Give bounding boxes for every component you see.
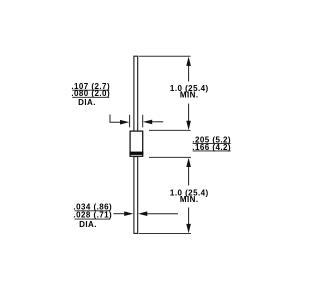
leader line left of lead-diameter arrow <box>113 213 124 215</box>
dimension line: upper lead length 1.0 (25.4) MIN <box>188 62 190 124</box>
svg-text:MIN.: MIN. <box>180 90 199 99</box>
leader (bent) from body-diameter label <box>110 115 121 123</box>
dimension line: lower lead length 1.0 (25.4) MIN <box>188 164 190 228</box>
arrowhead up (upper dim, top) <box>186 57 191 66</box>
cathode band <box>130 152 144 155</box>
wire: bottom lead of diode <box>134 157 138 234</box>
tail of right body-diameter arrow <box>152 121 163 123</box>
extension line: bottom of lead <box>139 233 191 235</box>
svg-text:.028 (.71): .028 (.71) <box>73 211 112 220</box>
arrowhead left at body right edge <box>143 120 152 125</box>
arrowhead down (upper dim, bottom) <box>186 121 191 130</box>
witness line: body left edge <box>129 115 131 128</box>
diode body (DO-41 package outline) <box>130 131 143 156</box>
arrowhead up (lower dim, top) <box>186 158 191 167</box>
arrowhead right at body left edge <box>120 120 129 125</box>
svg-text:MIN.: MIN. <box>180 195 199 204</box>
svg-text:.080 (2.0): .080 (2.0) <box>71 89 110 98</box>
wire: top lead of diode <box>134 56 138 132</box>
svg-text:DIA.: DIA. <box>79 220 97 229</box>
extension line: top of lead <box>139 55 191 57</box>
extension line: top of body <box>149 129 191 131</box>
extension line: bottom of body <box>149 156 191 158</box>
arrowhead right at lead left edge <box>124 211 133 216</box>
svg-text:DIA.: DIA. <box>78 98 96 107</box>
tail of right lead-diameter arrow <box>147 213 178 215</box>
arrowhead left at lead right edge <box>138 211 147 216</box>
witness line: body right edge <box>142 115 144 128</box>
arrowhead down (lower dim, bottom) <box>186 224 191 233</box>
